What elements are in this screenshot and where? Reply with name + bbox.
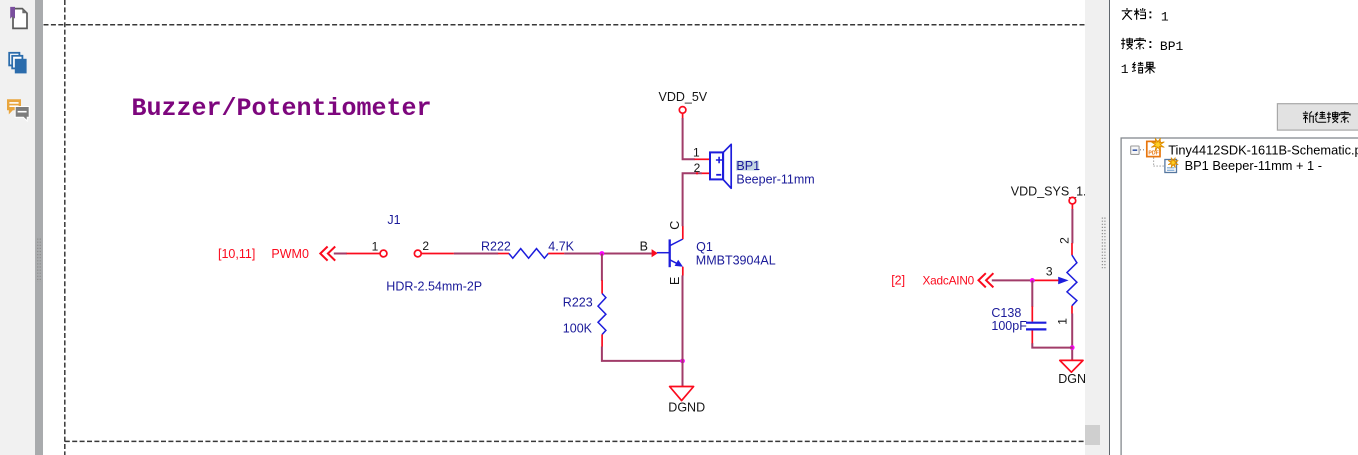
potentiometer body zigzag xyxy=(1067,255,1077,306)
svg-text:DGND: DGND xyxy=(668,401,705,415)
svg-text:R222: R222 xyxy=(481,240,511,254)
resistor R222 body xyxy=(509,249,548,259)
transistor Q1 base pin arrow xyxy=(652,249,658,257)
svg-text:R223: R223 xyxy=(563,296,593,310)
svg-text:BP1: BP1 xyxy=(736,159,760,173)
transistor Q1 emitter pin xyxy=(682,267,684,276)
transistor Q1 emitter arrowhead xyxy=(675,260,683,267)
svg-text:1: 1 xyxy=(1161,9,1169,24)
right search panel svg xyxy=(1110,0,1358,455)
transistor Q1 collector pin xyxy=(682,226,684,239)
svg-text:[2]: [2] xyxy=(891,273,905,287)
potentiometer pin 3 line xyxy=(1035,279,1059,281)
buzzer BP1 pin2 wire end dot xyxy=(696,172,698,174)
junction node emitter/ground xyxy=(680,359,685,364)
svg-text:C138: C138 xyxy=(991,306,1021,320)
svg-text:C: C xyxy=(668,221,682,230)
svg-text:2: 2 xyxy=(422,239,429,253)
tree expand box xyxy=(1131,146,1139,154)
port chevron XadcAIN0 xyxy=(979,273,994,287)
wire R222 to base node xyxy=(564,253,652,255)
svg-text:[10,11]: [10,11] xyxy=(218,247,255,261)
svg-text:PWM0: PWM0 xyxy=(271,247,309,261)
sheet border dashed top xyxy=(44,24,1086,26)
J1 pin 2 line xyxy=(421,253,454,255)
svg-text:E: E xyxy=(668,277,682,285)
J1 pin 1 line xyxy=(347,253,381,255)
left sidebar icons svg xyxy=(0,0,42,455)
R223 top pin xyxy=(601,280,603,293)
svg-text:VDD_5V: VDD_5V xyxy=(659,90,708,104)
capacitor C138 top plate xyxy=(1026,322,1046,324)
J1 pin 1 circle xyxy=(380,250,387,257)
info row 1 结果 xyxy=(1121,62,1156,77)
svg-text:100pF: 100pF xyxy=(991,319,1027,333)
svg-text:4.7K: 4.7K xyxy=(548,240,574,254)
svg-text:Beeper-11mm: Beeper-11mm xyxy=(736,173,814,187)
pages panel icon xyxy=(9,53,26,74)
svg-text:Tiny4412SDK-1611B-Schematic.pd: Tiny4412SDK-1611B-Schematic.pdf xyxy=(1168,142,1358,157)
schematic page svg xyxy=(42,0,1085,455)
transistor Q1 emitter stroke xyxy=(670,260,681,266)
svg-text:BP1 Beeper-11mm + 1 -: BP1 Beeper-11mm + 1 - xyxy=(1185,158,1322,173)
buzzer BP1 pin 2 xyxy=(702,172,710,174)
bookmark panel icon xyxy=(10,7,27,29)
svg-text:1: 1 xyxy=(1055,318,1069,325)
svg-text:MMBT3904AL: MMBT3904AL xyxy=(696,253,776,267)
R222 left pin xyxy=(498,253,509,255)
port chevron PWM0 xyxy=(320,247,335,261)
capacitor C138 top pin xyxy=(1031,306,1033,321)
right splitter scrollbar corner xyxy=(1085,425,1100,445)
results list box xyxy=(1121,138,1358,455)
info row 搜索: BP1 xyxy=(1121,38,1183,55)
junction node base/R223 xyxy=(600,251,605,256)
svg-text:PDF: PDF xyxy=(1148,151,1158,157)
wire VDD_SYS to potentiometer pin2 xyxy=(1071,209,1073,243)
potentiometer pin 2 xyxy=(1071,243,1073,255)
svg-text:1: 1 xyxy=(693,146,700,160)
comments panel icon xyxy=(7,99,29,121)
svg-text:1: 1 xyxy=(1121,62,1129,77)
transistor Q1 collector stroke xyxy=(670,239,683,246)
buzzer BP1 minus mark xyxy=(716,174,721,176)
svg-text:J1: J1 xyxy=(387,213,400,227)
wire junction down to C138 xyxy=(1031,280,1033,306)
sheet border dashed bottom xyxy=(65,440,1085,442)
ground symbol DGND left xyxy=(670,387,694,401)
capacitor C138 bottom plate xyxy=(1026,328,1046,330)
power symbol VDD_SYS stem xyxy=(1071,204,1073,210)
svg-text:BP1: BP1 xyxy=(1160,39,1184,54)
svg-text:VDD_SYS_1.8V: VDD_SYS_1.8V xyxy=(1011,184,1085,198)
wire XadcAIN0 to junction xyxy=(992,279,1035,281)
buzzer BP1 pin 1 xyxy=(694,158,709,160)
svg-text:DGND: DGND xyxy=(1058,372,1085,386)
wire VDD_5V to BP1 pin1 xyxy=(683,118,695,159)
ground symbol DGND right xyxy=(1060,360,1083,372)
splitter drag dots xyxy=(38,239,41,283)
capacitor C138 bottom pin xyxy=(1031,331,1033,344)
svg-text:2: 2 xyxy=(694,161,701,175)
sheet border dashed left xyxy=(64,0,66,455)
transistor Q1 body bar xyxy=(669,239,671,267)
potentiometer pin 1 xyxy=(1071,306,1073,314)
wire C138 to ground junction xyxy=(1032,343,1073,347)
BP1 search highlight xyxy=(736,161,759,171)
wire port to J1 pin1 xyxy=(334,253,347,255)
resistor R223 body xyxy=(598,294,606,335)
power symbol VDD_SYS circle xyxy=(1069,197,1076,204)
J1 pin 2 circle xyxy=(414,250,421,257)
R223 bottom pin xyxy=(601,334,603,346)
junction node pot/C138 xyxy=(1070,345,1075,350)
transistor Q1 base line xyxy=(657,252,670,254)
svg-text:Q1: Q1 xyxy=(696,240,713,254)
svg-text:3: 3 xyxy=(1046,264,1053,278)
left gray strip xyxy=(35,0,43,455)
tree result doc icon xyxy=(1165,158,1178,173)
svg-text:2: 2 xyxy=(1057,237,1071,244)
wire collector to BP1 pin2 xyxy=(683,173,702,226)
svg-text:1: 1 xyxy=(372,240,379,254)
buzzer BP1 horn xyxy=(723,144,731,188)
wire emitter down to ground xyxy=(682,275,684,386)
power symbol VDD_5V circle xyxy=(679,107,686,114)
right splitter drag dots xyxy=(1085,0,1108,455)
buzzer BP1 plus mark xyxy=(716,157,722,163)
svg-text:B: B xyxy=(640,240,648,254)
wire pot pin1 to ground junction xyxy=(1071,314,1073,361)
right splitter dark border xyxy=(1109,0,1111,455)
R222 right pin xyxy=(548,253,564,255)
tree pdf document icon xyxy=(1147,138,1164,156)
svg-text:XadcAIN0: XadcAIN0 xyxy=(923,273,975,287)
button new search 新建搜索 xyxy=(1277,104,1358,130)
wire node down to R223 xyxy=(601,254,603,281)
left toolbar background xyxy=(0,0,35,455)
wire R223 to emitter net corner xyxy=(602,347,683,361)
potentiometer wiper arrow xyxy=(1058,277,1068,285)
junction node XadcAIN0/C138 xyxy=(1030,278,1035,283)
wire J1 to R222 xyxy=(454,253,498,255)
info row 文档: 1 xyxy=(1122,8,1169,24)
buzzer BP1 body xyxy=(710,152,723,179)
svg-text:Buzzer/Potentiometer: Buzzer/Potentiometer xyxy=(132,94,432,123)
svg-text:100K: 100K xyxy=(563,322,593,336)
right splitter strip xyxy=(1085,0,1109,455)
power symbol VDD_5V stem xyxy=(682,113,684,118)
svg-text:HDR-2.54mm-2P: HDR-2.54mm-2P xyxy=(386,280,482,294)
tree dotted connectors xyxy=(1140,150,1164,166)
